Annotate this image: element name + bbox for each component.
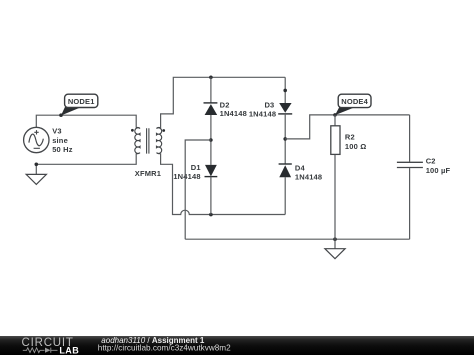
- label R2 value: [345, 133, 367, 151]
- transformer XFMR1: [135, 127, 162, 153]
- svg-text:100 µF: 100 µF: [426, 166, 451, 175]
- capacitor C2: [397, 115, 423, 239]
- svg-text:LAB: LAB: [59, 345, 79, 355]
- wire secondary bottom to bridge bottom with hop: [161, 153, 286, 214]
- svg-text:NODE1: NODE1: [68, 97, 95, 106]
- resistor R2: [331, 115, 340, 239]
- node NODE1 anchor dot: [59, 113, 63, 117]
- junction dot mid-left: [209, 138, 213, 142]
- svg-text:1N4148: 1N4148: [173, 172, 200, 181]
- junction dot top of D2 column: [209, 76, 213, 80]
- junction dot at V3 bottom: [35, 163, 39, 167]
- svg-text:D1: D1: [191, 163, 201, 172]
- junction dot ground rail: [333, 237, 337, 241]
- wire D1 bottom: [210, 177, 212, 215]
- diode D2: [204, 103, 218, 115]
- junction dot bottom of D1 column: [209, 213, 213, 217]
- svg-text:D4: D4: [295, 163, 306, 172]
- node NODE1 callout pointer: [61, 106, 80, 116]
- wire bottom rail: [185, 238, 409, 240]
- wire V3 top to transformer primary top: [36, 115, 136, 128]
- label D1: [173, 163, 200, 181]
- voltage source V3: [24, 127, 49, 152]
- phase dot secondary: [162, 129, 165, 132]
- diode D4: [279, 164, 292, 177]
- junction dot NODE4: [333, 113, 337, 117]
- label C2 value: [426, 157, 451, 175]
- svg-text:C2: C2: [426, 157, 436, 166]
- svg-text:XFMR1: XFMR1: [135, 169, 161, 178]
- svg-text:1N4148: 1N4148: [249, 110, 276, 119]
- wire D2 column upper: [210, 77, 212, 103]
- diode D1: [205, 165, 218, 177]
- node NODE4 label box: [338, 94, 371, 107]
- wire V3 bottom / transformer primary bottom: [36, 153, 136, 174]
- svg-text:1N4148: 1N4148: [295, 172, 322, 181]
- wire D3 column upper: [284, 77, 286, 103]
- wire D4 bottom: [284, 177, 286, 214]
- ground G1: [26, 174, 46, 184]
- node NODE1 label box: [65, 94, 98, 107]
- wire mid-right junction to NODE4 rail: [285, 115, 409, 139]
- phase dot primary: [131, 129, 134, 132]
- label D2: [220, 101, 247, 119]
- primary winding: [135, 127, 140, 153]
- svg-text:http://circuitlab.com/c3z4wutk: http://circuitlab.com/c3z4wutkvw8m2: [98, 343, 231, 352]
- label D4: [295, 163, 322, 181]
- svg-text:V3: V3: [52, 127, 62, 136]
- node NODE4 callout pointer: [335, 106, 354, 115]
- core: [147, 128, 149, 153]
- diode D3: [278, 103, 292, 114]
- svg-text:50 Hz: 50 Hz: [52, 145, 73, 154]
- wire mid-left junction to lower rail: [185, 140, 211, 239]
- svg-text:D3: D3: [264, 100, 274, 109]
- ground G2: [325, 239, 345, 259]
- label D3: [249, 100, 276, 118]
- footer logo glyph: [23, 348, 58, 353]
- footer bar: [0, 336, 474, 355]
- wire secondary top to bridge top: [161, 77, 286, 128]
- junction dot mid-right: [283, 137, 287, 141]
- svg-text:NODE4: NODE4: [341, 97, 368, 106]
- svg-text:sine: sine: [52, 136, 68, 145]
- junction dot below top corner: [283, 89, 287, 93]
- svg-text:1N4148: 1N4148: [220, 109, 247, 118]
- wire D3 to mid-right junction: [284, 114, 286, 164]
- svg-text:100 Ω: 100 Ω: [345, 142, 367, 151]
- label V3 value: [52, 127, 73, 155]
- svg-text:R2: R2: [345, 133, 355, 142]
- wire D2 to mid-left junction: [210, 115, 212, 165]
- secondary winding: [157, 127, 162, 153]
